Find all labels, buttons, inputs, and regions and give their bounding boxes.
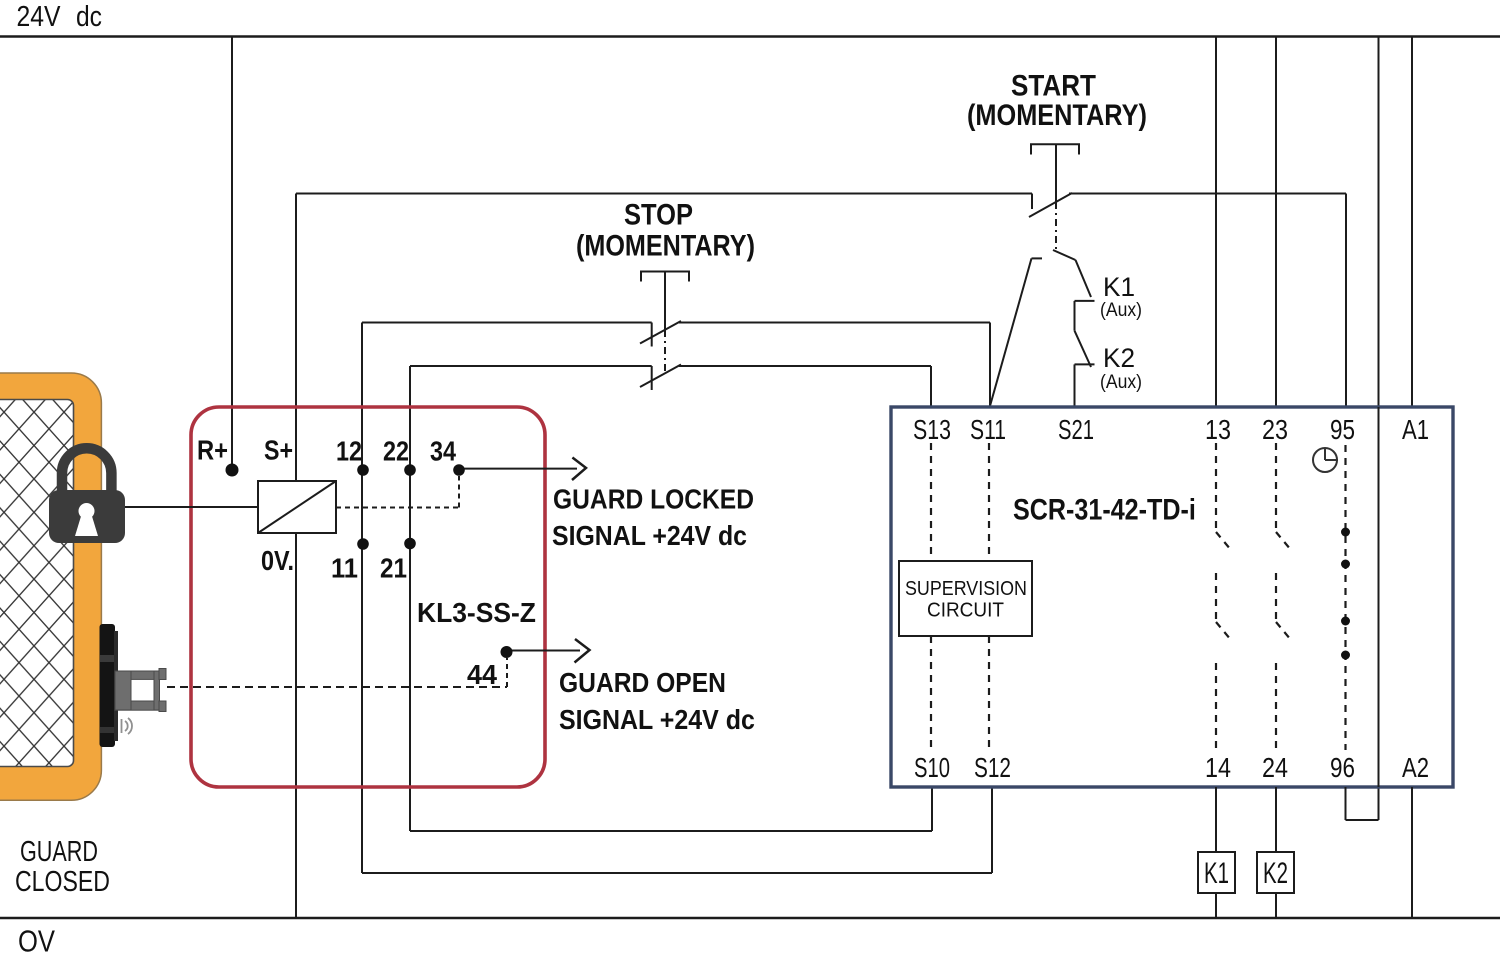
- svg-text:24: 24: [1262, 753, 1288, 783]
- svg-text:23: 23: [1262, 415, 1288, 445]
- svg-text:K2: K2: [1103, 343, 1135, 373]
- svg-text:11: 11: [331, 552, 358, 583]
- svg-text:22: 22: [383, 437, 409, 467]
- svg-text:S+: S+: [264, 436, 293, 467]
- svg-text:S11: S11: [970, 415, 1006, 445]
- svg-text:(MOMENTARY): (MOMENTARY): [576, 228, 755, 262]
- svg-text:13: 13: [1205, 415, 1231, 445]
- svg-text:S13: S13: [913, 416, 951, 446]
- svg-text:A1: A1: [1402, 415, 1429, 446]
- svg-text:12: 12: [336, 437, 362, 467]
- svg-text:GUARD OPEN: GUARD OPEN: [559, 667, 726, 699]
- svg-text:34: 34: [430, 437, 457, 467]
- svg-text:S12: S12: [974, 753, 1011, 783]
- svg-text:SCR-31-42-TD-i: SCR-31-42-TD-i: [1013, 492, 1196, 526]
- svg-text:GUARD LOCKED: GUARD LOCKED: [553, 483, 754, 515]
- svg-text:95: 95: [1330, 415, 1355, 446]
- svg-text:(MOMENTARY): (MOMENTARY): [967, 98, 1147, 132]
- svg-text:S21: S21: [1058, 415, 1094, 446]
- svg-text:KL3-SS-Z: KL3-SS-Z: [417, 596, 536, 628]
- svg-text:CIRCUIT: CIRCUIT: [927, 599, 1004, 622]
- svg-text:GUARD: GUARD: [20, 836, 98, 868]
- svg-text:24V: 24V: [17, 0, 61, 32]
- svg-text:SUPERVISION: SUPERVISION: [905, 578, 1027, 600]
- svg-text:START: START: [1011, 69, 1096, 102]
- svg-text:14: 14: [1205, 753, 1231, 783]
- svg-text:SIGNAL +24V dc: SIGNAL +24V dc: [559, 704, 755, 736]
- svg-text:0V.: 0V.: [261, 546, 294, 576]
- svg-text:K2: K2: [1263, 857, 1288, 890]
- svg-text:(Aux): (Aux): [1100, 370, 1142, 392]
- svg-text:CLOSED: CLOSED: [15, 864, 110, 897]
- svg-text:STOP: STOP: [624, 198, 693, 231]
- svg-text:96: 96: [1330, 753, 1355, 784]
- svg-text:S10: S10: [914, 753, 950, 784]
- svg-text:SIGNAL +24V dc: SIGNAL +24V dc: [552, 520, 747, 552]
- svg-text:K1: K1: [1204, 857, 1229, 890]
- svg-text:OV: OV: [18, 924, 55, 958]
- svg-text:(Aux): (Aux): [1100, 298, 1142, 320]
- svg-text:A2: A2: [1402, 753, 1429, 784]
- svg-text:21: 21: [380, 552, 407, 584]
- svg-text:dc: dc: [76, 0, 102, 32]
- svg-text:44: 44: [467, 659, 498, 691]
- svg-text:R+: R+: [197, 436, 228, 466]
